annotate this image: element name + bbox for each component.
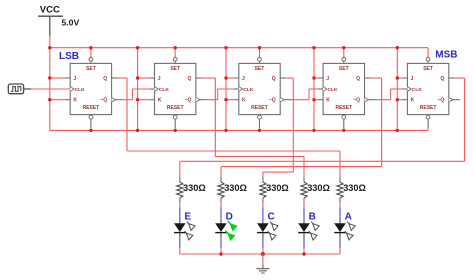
svg-text:K: K bbox=[242, 98, 246, 104]
svg-text:~Q: ~Q bbox=[353, 98, 360, 104]
svg-text:SET: SET bbox=[255, 66, 265, 72]
svg-text:Q: Q bbox=[188, 76, 192, 82]
svg-text:K: K bbox=[326, 98, 330, 104]
svg-text:~Q: ~Q bbox=[185, 98, 192, 104]
svg-text:330Ω: 330Ω bbox=[266, 183, 289, 193]
svg-text:E: E bbox=[184, 212, 191, 223]
svg-text:CLK: CLK bbox=[243, 87, 254, 93]
svg-text:K: K bbox=[73, 98, 77, 104]
svg-text:~Q: ~Q bbox=[269, 98, 276, 104]
svg-text:J: J bbox=[158, 76, 161, 82]
svg-text:MSB: MSB bbox=[435, 50, 457, 61]
svg-text:J: J bbox=[242, 76, 245, 82]
svg-text:CLK: CLK bbox=[75, 87, 86, 93]
svg-text:SET: SET bbox=[86, 66, 96, 72]
svg-text:VCC: VCC bbox=[40, 4, 60, 15]
svg-text:~Q: ~Q bbox=[100, 98, 107, 104]
svg-text:B: B bbox=[309, 212, 316, 223]
svg-text:J: J bbox=[73, 76, 76, 82]
svg-text:CLK: CLK bbox=[159, 87, 170, 93]
svg-text:330Ω: 330Ω bbox=[183, 183, 206, 193]
svg-text:C: C bbox=[268, 212, 275, 223]
svg-text:RESET: RESET bbox=[251, 105, 268, 111]
svg-text:RESET: RESET bbox=[420, 105, 437, 111]
svg-text:RESET: RESET bbox=[83, 105, 100, 111]
svg-text:Q: Q bbox=[356, 76, 360, 82]
svg-text:RESET: RESET bbox=[167, 105, 184, 111]
svg-text:K: K bbox=[411, 98, 415, 104]
svg-text:RESET: RESET bbox=[335, 105, 352, 111]
svg-text:SET: SET bbox=[423, 66, 433, 72]
svg-text:K: K bbox=[158, 98, 162, 104]
svg-text:SET: SET bbox=[339, 66, 349, 72]
svg-text:330Ω: 330Ω bbox=[307, 183, 330, 193]
svg-text:J: J bbox=[326, 76, 329, 82]
svg-text:A: A bbox=[345, 212, 352, 223]
svg-text:~Q: ~Q bbox=[437, 98, 444, 104]
svg-text:Q: Q bbox=[272, 76, 276, 82]
svg-text:Q: Q bbox=[103, 76, 107, 82]
svg-text:D: D bbox=[226, 212, 233, 223]
svg-text:SET: SET bbox=[170, 66, 180, 72]
svg-text:LSB: LSB bbox=[59, 51, 79, 62]
svg-text:5.0V: 5.0V bbox=[62, 18, 80, 28]
svg-text:330Ω: 330Ω bbox=[343, 183, 366, 193]
svg-text:CLK: CLK bbox=[412, 87, 423, 93]
svg-text:CLK: CLK bbox=[328, 87, 339, 93]
svg-text:330Ω: 330Ω bbox=[224, 183, 247, 193]
svg-text:J: J bbox=[411, 76, 414, 82]
svg-text:Q: Q bbox=[440, 76, 444, 82]
